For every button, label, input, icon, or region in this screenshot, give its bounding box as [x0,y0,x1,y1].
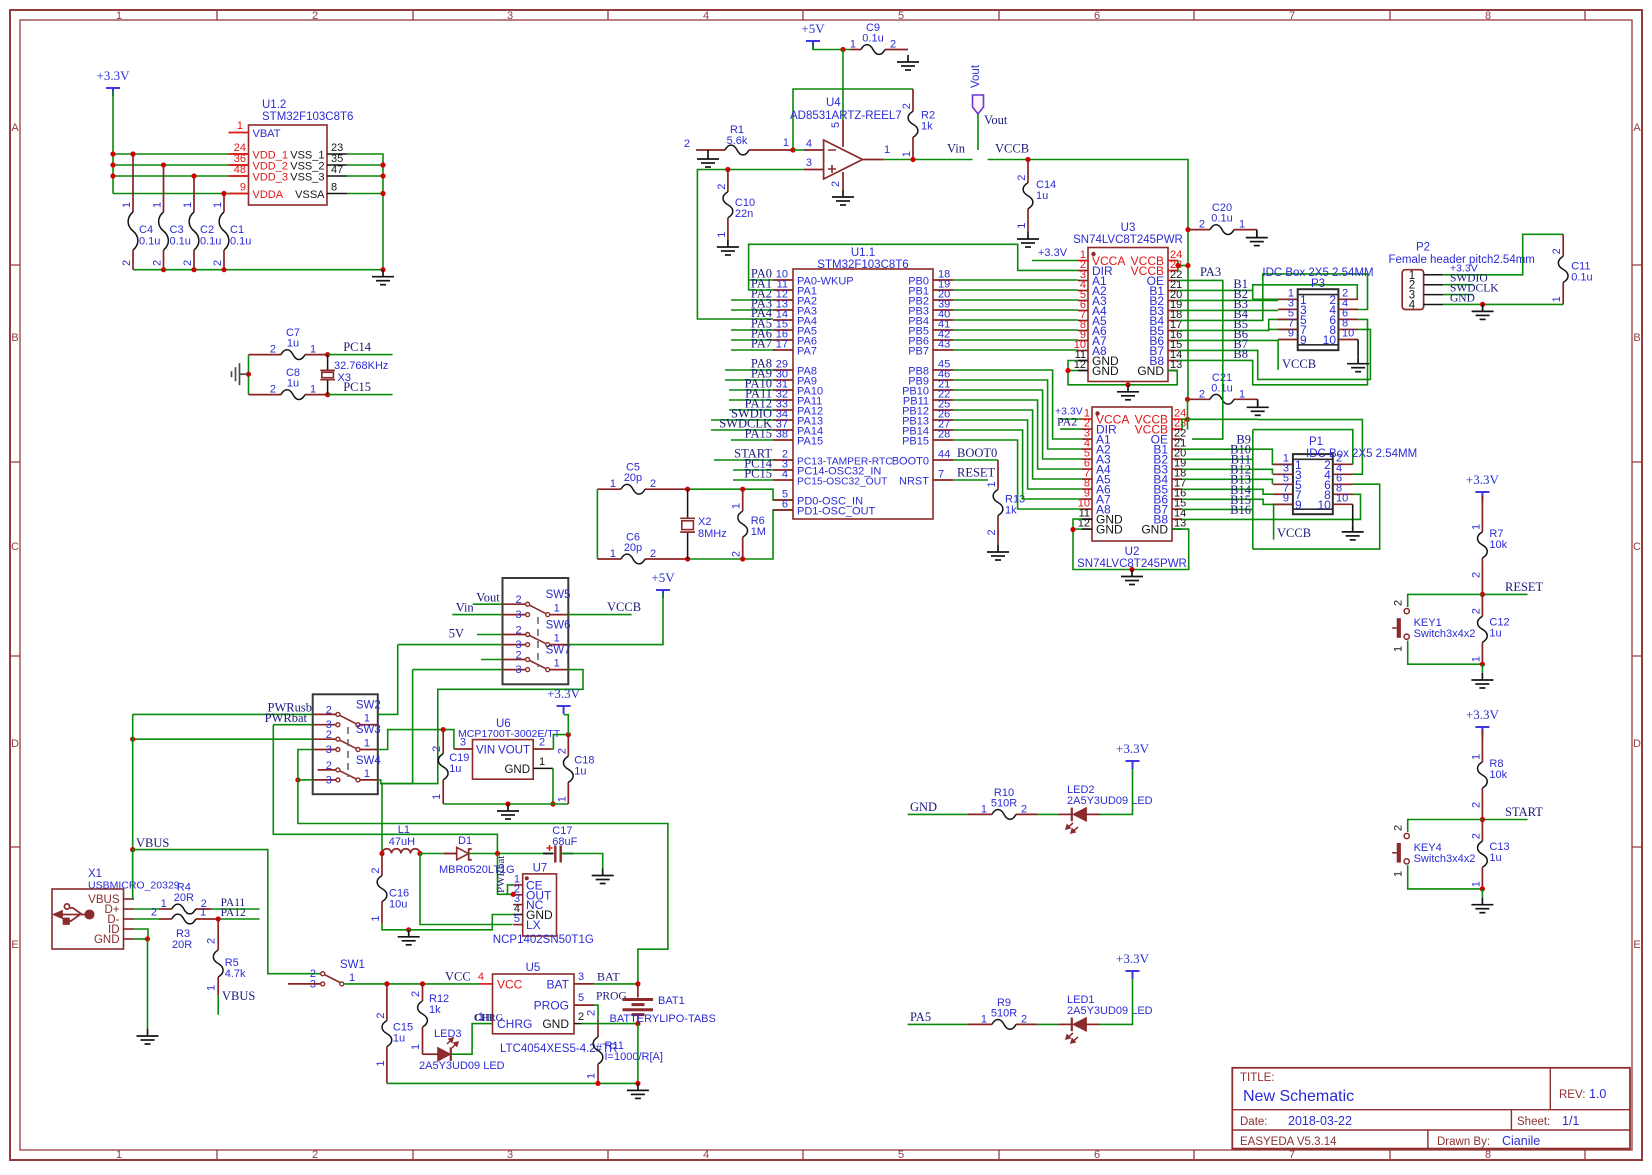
capacitor C17 68uF polarized [543,825,578,863]
wire Vout to SW5 [473,603,503,605]
junction [191,267,196,272]
svg-text:B16: B16 [1230,503,1251,517]
svg-text:P2: P2 [1416,242,1430,254]
svg-text:1: 1 [116,1149,122,1161]
svg-text:B8: B8 [1233,347,1248,361]
svg-text:47: 47 [331,164,343,176]
wire P2 GND row [1443,303,1563,305]
wire crystal cluster left [596,489,598,559]
svg-text:U5: U5 [526,962,541,974]
svg-text:2: 2 [890,39,896,51]
svg-text:4: 4 [703,10,709,22]
svg-text:2: 2 [1021,803,1027,815]
wire P3 VCCB stub [1277,340,1279,370]
wire LED3 to CHRG [451,1024,493,1055]
svg-text:68uF: 68uF [552,836,577,848]
resistor R1 5.6k [684,124,793,155]
U1.1 left pins [773,269,893,518]
svg-text:4: 4 [478,971,484,983]
led LED1 2A5Y3UD09 [1037,994,1153,1043]
svg-text:Vin: Vin [947,142,966,156]
wire PB0-PB7 to U3 A1-A8 [953,279,1078,281]
svg-text:10: 10 [1323,333,1337,347]
junction [420,981,425,986]
svg-text:PC14: PC14 [343,340,372,354]
wire B3 net [1178,309,1278,311]
junction [221,267,226,272]
svg-text:1: 1 [1551,296,1563,302]
junction [130,737,135,742]
wire RESET node [1482,593,1527,595]
svg-text:3: 3 [515,664,521,676]
svg-text:2: 2 [716,184,728,190]
wire U2 VCCB link [1181,419,1183,429]
ic U2 SN74LVC8T245PWR [1077,407,1187,570]
U4 pin 2 (V-) [842,172,844,190]
svg-text:VCCB: VCCB [1282,357,1316,371]
wire B16 net [1182,494,1361,519]
wire P1 left vertical [1252,430,1254,549]
wire D+ to R4 [134,908,159,910]
junction [246,372,251,377]
svg-text:1: 1 [121,202,133,208]
wire X1 ID/GND [134,929,148,939]
svg-text:1: 1 [539,756,545,768]
ground (KEY4/C13) [1481,889,1483,898]
svg-text:VDDA: VDDA [253,189,284,201]
wire GND label (LED2) [908,813,968,815]
svg-text:1: 1 [1393,871,1405,877]
junction [1480,592,1485,597]
resistor R2 1k [901,89,935,160]
svg-text:1: 1 [901,151,913,157]
svg-text:2: 2 [1470,608,1482,614]
svg-text:SW3: SW3 [356,724,381,736]
U5 pin 3 BAT [574,983,594,985]
svg-text:1: 1 [1470,656,1482,662]
svg-text:BATTERYLIPO-TABS: BATTERYLIPO-TABS [610,1013,716,1025]
svg-text:GND: GND [1141,523,1168,537]
svg-text:7: 7 [1289,1149,1295,1161]
wire U3 GND loop [1068,361,1177,385]
wire +5V to C9/pin5 [813,45,850,50]
svg-text:1: 1 [152,202,164,208]
svg-text:44: 44 [938,449,950,461]
junction [1185,227,1190,232]
svg-text:P3: P3 [1311,278,1325,290]
wire op-amp output Vin [883,159,973,161]
svg-text:2: 2 [152,260,164,266]
svg-text:Switch3x4x2: Switch3x4x2 [1414,628,1476,640]
svg-text:2A5Y3UD09 LED: 2A5Y3UD09 LED [419,1060,505,1072]
wire U6 VOUT up [551,735,568,749]
svg-text:1: 1 [716,232,728,238]
ground (P1 pin10) [1352,504,1354,525]
junction [406,927,411,932]
junction [161,162,166,167]
connector P3 IDC Box 2X5 [1262,267,1373,350]
svg-text:Switch3x4x2: Switch3x4x2 [1414,853,1476,865]
wire PA1 / U3 DIR [749,244,1078,290]
svg-text:Vin: Vin [456,601,475,615]
svg-text:1: 1 [206,985,218,991]
svg-text:U1.1: U1.1 [851,247,875,259]
svg-text:+5V: +5V [801,21,825,36]
svg-text:2: 2 [326,704,332,716]
svg-text:PC15-OSC32_OUT: PC15-OSC32_OUT [797,477,888,488]
wire B2 net [1178,299,1278,301]
svg-text:GND: GND [504,764,530,776]
inductor L1 47uH [382,824,420,854]
wire P1 VCCB stub [1273,504,1275,539]
svg-text:1: 1 [182,202,194,208]
P1 pins [1273,452,1353,512]
wire 5V to SW6 [477,634,503,636]
svg-text:VBAT: VBAT [253,128,281,140]
svg-text:1u: 1u [1489,627,1501,639]
switch SW4 pins [318,769,338,771]
svg-text:2: 2 [270,384,276,396]
wire D1 anode stub [444,853,457,855]
ground (U3) [1117,385,1139,400]
usb icon [54,904,94,924]
svg-text:10: 10 [1317,498,1331,512]
capacitor C14 1u [1016,160,1056,233]
svg-text:VCCB: VCCB [607,600,641,614]
svg-text:1/1: 1/1 [1562,1114,1579,1128]
svg-text:D: D [11,738,19,750]
U3 pins [1074,249,1183,378]
svg-text:VIN: VIN [476,745,495,757]
svg-text:0.1u: 0.1u [170,236,191,248]
svg-text:1u: 1u [449,763,461,775]
wire L1 to D1 [420,853,457,855]
svg-text:STM32F103C8T6: STM32F103C8T6 [817,259,908,271]
svg-text:5: 5 [830,122,842,128]
svg-text:2: 2 [431,746,443,752]
capacitor C4 0.1u [121,154,160,270]
junction [1185,417,1190,422]
wire +3.3V to R8 [1481,731,1483,741]
switch SW6 pins [503,634,528,636]
svg-text:PWRbat: PWRbat [495,856,507,893]
svg-text:BOOT0: BOOT0 [892,456,929,468]
junction [191,173,196,178]
svg-text:3: 3 [507,1149,513,1161]
ic U7 NCP1402SN50T1G [493,863,594,947]
svg-text:C2: C2 [200,224,214,236]
svg-text:2: 2 [1021,1013,1027,1025]
svg-text:SW6: SW6 [546,620,571,632]
wire B1 net [1178,289,1253,291]
svg-text:2: 2 [182,260,194,266]
svg-text:2: 2 [586,1010,598,1016]
wire U7 GND [409,915,514,930]
svg-text:48: 48 [234,164,246,176]
wire + input to PA4 and C10 [697,170,804,320]
U2 pins [1078,408,1187,537]
svg-text:2: 2 [539,737,545,749]
svg-text:3: 3 [515,609,521,621]
wire PWRbat [273,724,312,726]
wire B13 net [1182,489,1293,494]
svg-text:PA15: PA15 [745,427,772,441]
svg-text:2: 2 [515,625,521,637]
ic U5 LTC4054XES5-4.2#TR [493,962,618,1055]
resistor R12 1k [410,984,449,1054]
svg-text:5: 5 [898,1149,904,1161]
svg-text:PROG: PROG [596,991,627,1003]
svg-text:1: 1 [364,768,370,780]
svg-text:2: 2 [650,548,656,560]
svg-text:GND: GND [1450,293,1475,305]
switch SW7 [515,645,570,677]
junction [1065,368,1070,373]
switch gang dashed link [537,617,539,667]
junction [380,191,385,196]
junction [740,556,745,561]
wire Vin to SW5 [452,614,502,616]
resistor R13 1k [986,460,1025,545]
junction [1175,263,1180,268]
wire +3.3V flag U6 [564,715,569,735]
svg-text:PA4: PA4 [751,306,773,320]
svg-text:E: E [1633,939,1640,951]
svg-text:PC15: PC15 [744,467,772,481]
wire P2 +3.3V to C11 [1443,234,1563,274]
svg-text:LED3: LED3 [434,1028,462,1040]
X1 pins [88,894,134,946]
svg-text:NCP1402SN50T1G: NCP1402SN50T1G [493,934,594,946]
svg-text:U3: U3 [1121,222,1136,234]
ic U6 MCP1700T-3002E/TT [458,718,561,779]
svg-text:0.1u: 0.1u [230,236,251,248]
svg-text:9: 9 [1295,498,1302,512]
svg-text:E: E [11,939,18,951]
junction [511,892,516,897]
svg-text:1: 1 [212,202,224,208]
ground (U2) [1121,570,1143,585]
svg-text:20p: 20p [624,542,642,554]
svg-text:GND: GND [1092,364,1119,378]
svg-text:GND: GND [1137,364,1164,378]
svg-text:BAT1: BAT1 [658,995,685,1007]
wire PC15 [328,394,393,396]
title block text [1240,1072,1606,1148]
svg-text:PA7: PA7 [797,346,817,358]
ground (boost) [398,930,420,945]
svg-text:VBUS: VBUS [136,836,169,850]
svg-text:+3.3V: +3.3V [1116,741,1150,756]
svg-text:PWRbat: PWRbat [265,711,308,725]
wire U6 bottom rail [443,803,568,805]
wire B7 net [1178,329,1370,379]
wire B11 net [1182,469,1272,474]
wire GND row U5 [582,1023,638,1025]
junction [325,352,330,357]
svg-text:VSSA: VSSA [295,189,325,201]
switch SW7 pins [503,659,528,661]
U1.2 pin 1 VBAT [229,132,249,134]
svg-text:1: 1 [586,1073,598,1079]
svg-text:6: 6 [782,499,788,511]
svg-text:NRST: NRST [899,476,929,488]
svg-text:VBUS: VBUS [222,989,255,1003]
wire +3.3V to R7 [1481,496,1483,506]
svg-text:PA7: PA7 [751,337,772,351]
svg-text:1: 1 [981,1013,987,1025]
svg-text:5: 5 [578,992,584,1004]
svg-text:C4: C4 [139,224,153,236]
wire VCCB from SW5 [568,614,631,616]
junction [910,157,915,162]
svg-text:1: 1 [556,796,568,802]
svg-text:17: 17 [776,339,788,351]
svg-text:1u: 1u [1489,852,1501,864]
ground (C17) [592,869,614,884]
svg-text:U4: U4 [826,97,841,109]
wire +3.3V to VDD bus [112,92,114,194]
svg-text:2: 2 [650,478,656,490]
U6 pin 1 GND [533,767,553,769]
ic U1.2 STM32F103C8T6 [249,99,354,205]
ground (X1) [137,1029,159,1044]
svg-text:10k: 10k [1489,769,1507,781]
switch SW4 [326,755,382,787]
svg-text:IDC Box 2X5 2.54MM: IDC Box 2X5 2.54MM [1306,448,1417,460]
wire U6 GND down [552,768,554,804]
junction [130,847,135,852]
svg-text:1: 1 [1239,388,1245,400]
svg-text:+3.3V: +3.3V [547,686,581,701]
svg-text:X1: X1 [88,868,102,880]
wire SW7 pin1 to regulator input [381,670,583,784]
connector X1 USBMICRO_20329 [52,889,124,949]
svg-text:PC15: PC15 [343,380,371,394]
svg-text:9: 9 [1283,492,1289,504]
wire decoupling bottom rail [133,269,383,271]
svg-text:EASYEDA V5.3.14: EASYEDA V5.3.14 [1240,1136,1337,1148]
wire SW6 pin3 from SW2 [398,644,503,646]
junction [325,392,330,397]
switch SW6 [515,620,570,652]
svg-text:2: 2 [212,260,224,266]
junction [1025,157,1030,162]
junction [216,916,221,921]
U4 pin 3 (non-inverting) [804,169,824,171]
svg-text:0.1u: 0.1u [200,236,221,248]
svg-text:2: 2 [515,650,521,662]
svg-text:X2: X2 [698,516,711,528]
svg-text:1: 1 [1470,754,1482,760]
svg-text:2A5Y3UD09 LED: 2A5Y3UD09 LED [1067,1005,1153,1017]
wire BAT row [594,983,638,985]
svg-text:28: 28 [938,429,950,441]
wire VCCB to U3 [988,160,1188,400]
svg-text:1: 1 [981,803,987,815]
wire SW1 to U5 VCC [344,983,480,985]
U4 pin 1 output [863,159,884,161]
svg-text:1: 1 [1470,524,1482,530]
svg-text:1u: 1u [287,338,299,350]
svg-text:+3.3V: +3.3V [1466,472,1500,487]
wire SWDIO [1443,284,1473,286]
svg-text:6: 6 [1094,10,1100,22]
svg-text:RESET: RESET [957,466,996,480]
svg-text:1: 1 [884,144,890,156]
junction [441,727,446,732]
svg-text:1: 1 [200,907,206,919]
wire PROG to R11 [594,1005,598,1020]
capacitor C5 20p [597,462,687,494]
svg-text:A: A [1633,122,1641,134]
resistor R5 4.7k [206,919,246,995]
junction [635,981,640,986]
svg-text:1: 1 [554,603,560,615]
svg-text:2: 2 [986,529,998,535]
wire SW3 pin1 to U6 VIN [378,730,443,750]
svg-text:10: 10 [1342,328,1354,340]
wire VCCB main vertical to C21/U2 [1187,399,1189,429]
crystal X2 8MHz [680,489,727,559]
svg-text:GND: GND [910,800,937,814]
junction [635,1021,640,1026]
capacitor C3 0.1u [152,165,191,270]
svg-text:1: 1 [554,633,560,645]
switch SW3 pins [313,738,338,740]
U1.2 VSS pins [327,153,347,155]
junction [110,151,115,156]
led LED3 2A5Y3UD09 [419,1028,505,1072]
U4 pin 4 (inverting) [804,149,824,151]
P2 pins [1409,270,1443,312]
resistor R3 20R [151,907,218,952]
svg-text:2: 2 [515,594,521,606]
wire VBUS to SW1 [133,850,321,974]
capacitor C1 0.1u [212,194,251,270]
ground (C10) [717,240,739,255]
junction [725,167,730,172]
U4 pin 5 (V+) [842,120,844,147]
svg-text:Sheet:: Sheet: [1517,1116,1550,1128]
svg-text:5: 5 [514,913,520,925]
wire VSS bus [347,154,383,270]
svg-text:2: 2 [1470,802,1482,808]
svg-text:8: 8 [1485,1149,1491,1161]
svg-text:7: 7 [938,469,944,481]
svg-text:2: 2 [312,1149,318,1161]
svg-text:0.1u: 0.1u [1211,213,1232,225]
svg-text:1: 1 [554,658,560,670]
svg-text:3: 3 [806,157,812,169]
svg-text:SW5: SW5 [546,589,571,601]
switch box SW2-SW4 [313,694,378,794]
svg-text:1: 1 [431,794,443,800]
svg-text:1: 1 [1016,223,1028,229]
capacitor C18 1u [556,735,594,804]
ground (C21) [1257,399,1259,407]
svg-text:1M: 1M [751,526,766,538]
svg-text:1: 1 [410,1044,422,1050]
svg-text:2: 2 [1551,248,1563,254]
wire VCCB P1 loop [1188,418,1258,420]
junction [550,801,555,806]
svg-text:43: 43 [938,339,950,351]
svg-text:1u: 1u [1036,190,1048,202]
junction [1125,382,1130,387]
port flag Vout [970,64,1008,127]
wire SW4 pin1 to SW7 pin3 [378,670,413,784]
